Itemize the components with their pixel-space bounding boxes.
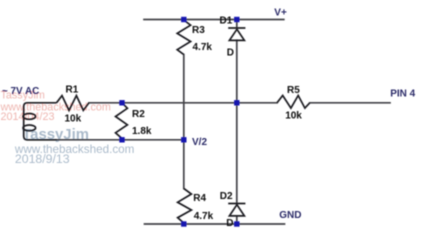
svg-text:10k: 10k: [285, 111, 302, 122]
AC source V1 (~7V AC transformer winding): [23, 103, 57, 140]
wire V+ top rail: [144, 19, 284, 21]
wire main signal rail left (R1 to R5): [89, 102, 277, 104]
diode D1 (anode down, cathode to V+): [228, 28, 245, 40]
node: top rail / R3: [181, 17, 186, 22]
svg-text:2014/04/23: 2014/04/23: [1, 111, 55, 123]
wire clamp vertical (signal to D2): [236, 103, 238, 204]
wire divider vertical (V/2 to R4 top): [183, 140, 185, 189]
svg-text:4.7k: 4.7k: [194, 211, 214, 222]
resistor R3 4.7k (vertical zigzag): [177, 20, 190, 55]
wire clamp vertical (D1 to signal): [236, 40, 238, 103]
svg-text:4.7k: 4.7k: [193, 42, 213, 53]
wire main signal rail right (R5 to PIN 4): [310, 102, 390, 104]
svg-text:R3: R3: [192, 25, 205, 36]
svg-text:V/2: V/2: [192, 137, 207, 148]
svg-text:R2: R2: [132, 109, 145, 120]
svg-text:D: D: [227, 48, 234, 59]
svg-text:TassyJim: TassyJim: [22, 127, 89, 143]
wire AC return / V2 node wire: [27, 139, 184, 141]
watermark 2014 (pink): [0, 90, 111, 123]
node: signal / R2 top: [119, 100, 124, 105]
node: bottom rail / R4: [181, 221, 186, 226]
svg-text:GND: GND: [279, 210, 301, 221]
resistor R4 4.7k (vertical zigzag): [178, 189, 192, 224]
wire clamp vertical (D2 to GND): [236, 216, 238, 224]
wire divider vertical (R3 bottom to V/2): [183, 55, 185, 140]
node: bottom rail / D2: [234, 221, 239, 226]
svg-text:10k: 10k: [65, 113, 82, 124]
node: R2 bottom / AC return: [119, 137, 124, 142]
resistor R5 10k (zigzag): [277, 96, 310, 109]
svg-text:R1: R1: [66, 85, 79, 96]
svg-text:~ 7V AC: ~ 7V AC: [2, 86, 39, 97]
watermark 2018 (blue-gray): [14, 127, 135, 166]
svg-text:PIN 4: PIN 4: [390, 88, 415, 99]
svg-text:D2: D2: [220, 191, 233, 202]
node V/2: [181, 137, 186, 142]
svg-text:R5: R5: [287, 85, 300, 96]
svg-text:V+: V+: [274, 8, 287, 19]
svg-text:1.8k: 1.8k: [132, 126, 152, 137]
junction node dots: [119, 17, 239, 227]
svg-text:D: D: [226, 218, 233, 229]
wire clamp vertical (V+ to D1): [236, 20, 238, 28]
resistor R1 10k (zigzag): [57, 96, 90, 111]
svg-text:2018/9/13: 2018/9/13: [15, 152, 70, 166]
resistor R2 1.8k (vertical zigzag): [116, 103, 128, 139]
node: top rail / D1: [234, 17, 239, 22]
wire GND bottom rail: [145, 223, 285, 225]
svg-text:D1: D1: [220, 16, 233, 27]
diode D2 (anode to GND side, cathode up to signal): [228, 204, 245, 216]
svg-text:R4: R4: [193, 193, 206, 204]
node: signal / D clamp: [234, 100, 239, 105]
